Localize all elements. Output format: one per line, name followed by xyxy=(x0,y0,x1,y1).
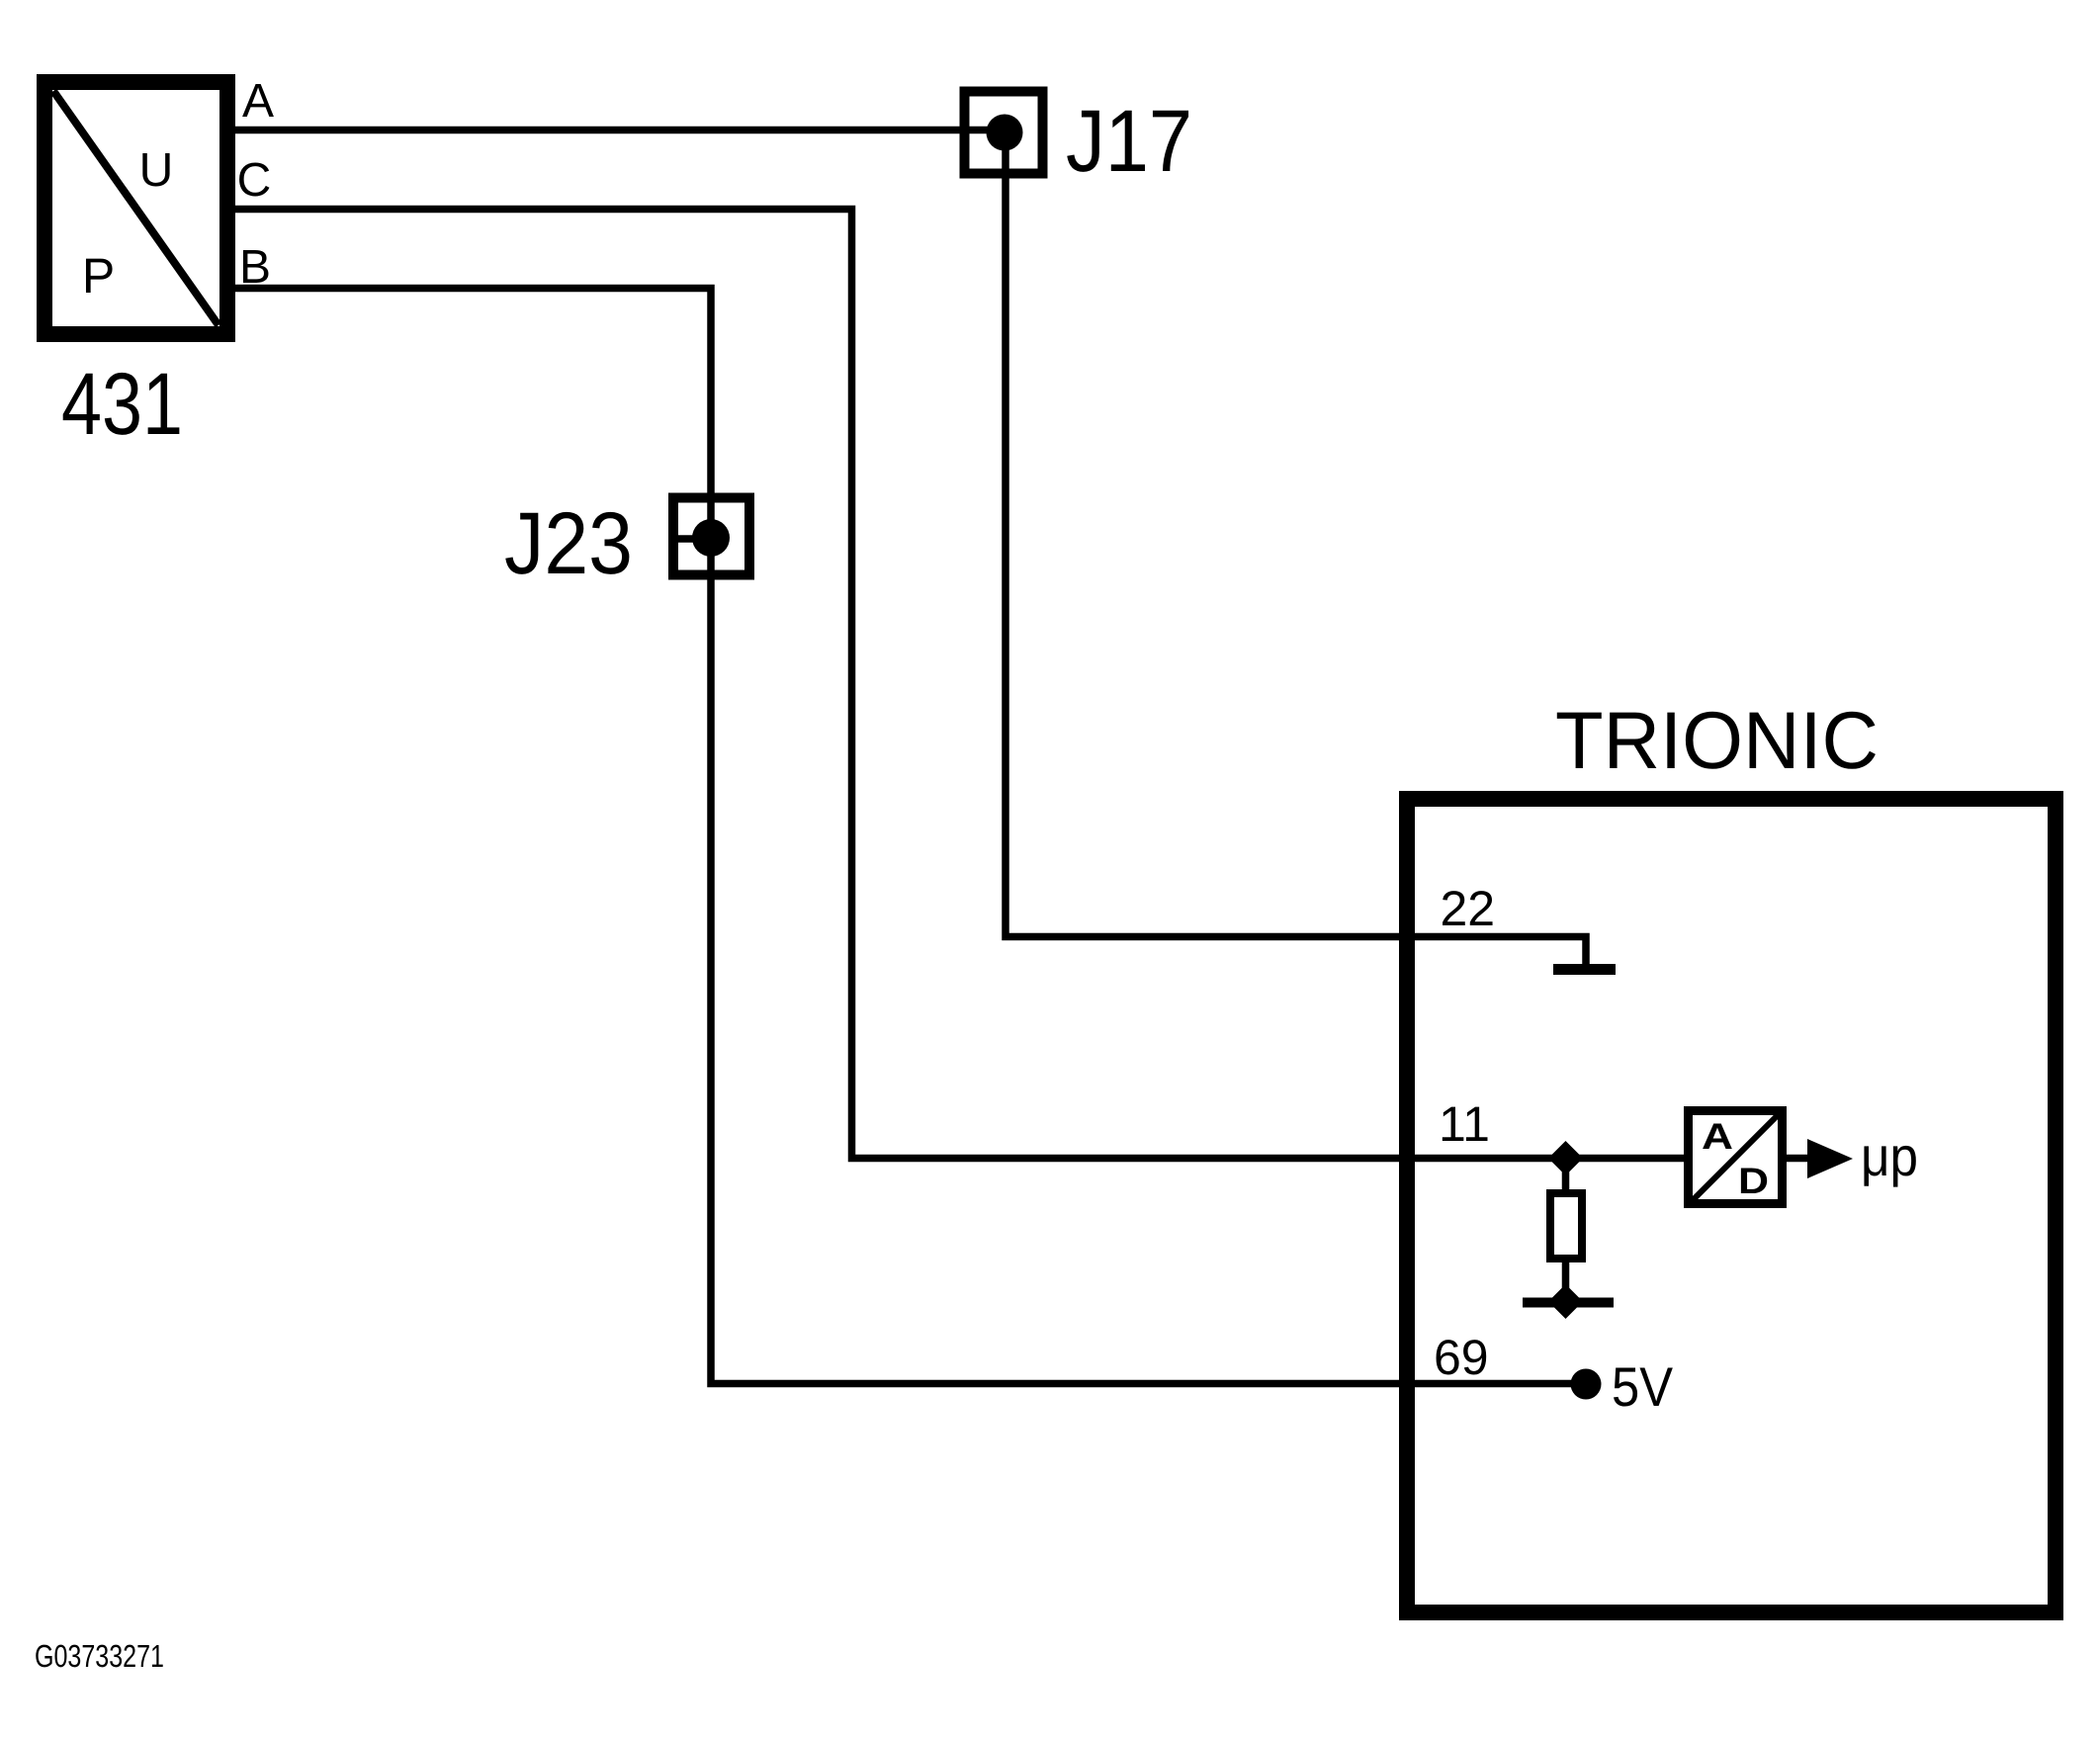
svg-text:5V: 5V xyxy=(1612,1355,1674,1418)
svg-text:J17: J17 xyxy=(1066,91,1192,190)
svg-text:69: 69 xyxy=(1434,1330,1489,1385)
svg-text:B: B xyxy=(239,241,271,294)
svg-text:A: A xyxy=(242,75,274,128)
svg-text:11: 11 xyxy=(1439,1096,1490,1152)
svg-text:J23: J23 xyxy=(504,493,633,592)
svg-text:431: 431 xyxy=(61,354,183,453)
svg-text:G03733271: G03733271 xyxy=(35,1638,164,1674)
svg-text:22: 22 xyxy=(1441,881,1496,936)
svg-text:P: P xyxy=(82,248,115,304)
svg-text:A: A xyxy=(1702,1116,1733,1157)
svg-text:μp: μp xyxy=(1861,1125,1918,1187)
svg-text:U: U xyxy=(139,144,174,197)
svg-text:C: C xyxy=(237,154,272,207)
svg-text:TRIONIC: TRIONIC xyxy=(1555,696,1879,786)
svg-text:D: D xyxy=(1738,1161,1769,1201)
